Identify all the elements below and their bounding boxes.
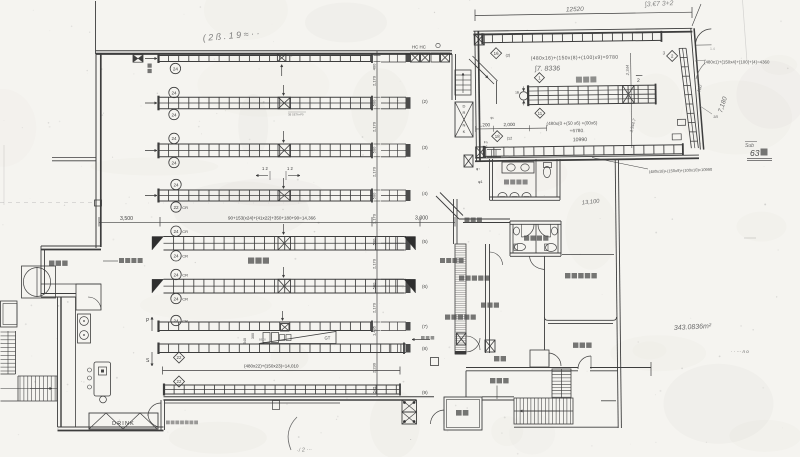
svg-text:R: R bbox=[463, 110, 466, 115]
svg-text:500: 500 bbox=[372, 99, 377, 106]
svg-text:(480x22)+(150x23)=14,010: (480x22)+(150x23)=14,010 bbox=[244, 364, 299, 369]
svg-text:500: 500 bbox=[372, 146, 377, 153]
svg-text:(7): (7) bbox=[422, 324, 428, 329]
svg-text:HC HC: HC HC bbox=[412, 45, 426, 50]
svg-text:ρ2: ρ2 bbox=[484, 145, 488, 149]
svg-text:BECK: BECK bbox=[259, 338, 266, 342]
svg-text:22: 22 bbox=[177, 379, 182, 384]
svg-text:22: 22 bbox=[173, 205, 179, 210]
svg-text:3B GETA+P9: 3B GETA+P9 bbox=[288, 113, 304, 117]
svg-text:CR: CR bbox=[182, 318, 188, 323]
svg-text:(5): (5) bbox=[422, 239, 428, 244]
svg-text:CR: CR bbox=[182, 229, 188, 234]
svg-text:(12: (12 bbox=[507, 137, 513, 141]
svg-text:∫7. 8336: ∫7. 8336 bbox=[534, 65, 560, 72]
svg-text:CR: CR bbox=[182, 254, 188, 259]
svg-text:24: 24 bbox=[173, 254, 179, 259]
svg-text:2,000: 2,000 bbox=[504, 122, 516, 127]
svg-text:2,170: 2,170 bbox=[372, 258, 377, 269]
svg-text:2,170: 2,170 bbox=[372, 166, 377, 177]
svg-text:241: 241 bbox=[625, 92, 630, 100]
svg-text:22: 22 bbox=[177, 355, 182, 360]
svg-text:(2): (2) bbox=[506, 54, 511, 58]
svg-text:CR: CR bbox=[182, 205, 188, 210]
svg-text:24: 24 bbox=[173, 272, 179, 277]
svg-text:GT: GT bbox=[325, 336, 331, 341]
svg-text:1,435: 1,435 bbox=[372, 325, 377, 336]
svg-text:(9): (9) bbox=[422, 390, 428, 395]
svg-text:CR: CR bbox=[182, 272, 188, 277]
svg-text:1 2: 1 2 bbox=[262, 166, 268, 171]
svg-text:N: N bbox=[463, 123, 466, 128]
svg-text:+6780: +6780 bbox=[570, 128, 584, 134]
svg-text:(3): (3) bbox=[422, 145, 428, 150]
svg-text:2,170: 2,170 bbox=[372, 121, 377, 132]
svg-text:500: 500 bbox=[372, 192, 377, 199]
svg-text:2,170: 2,170 bbox=[372, 75, 377, 86]
svg-text:3,000: 3,000 bbox=[415, 216, 428, 222]
svg-text:(4): (4) bbox=[422, 191, 428, 196]
svg-text:D: D bbox=[463, 104, 466, 109]
svg-text:1.4: 1.4 bbox=[710, 47, 715, 51]
svg-text:(480x(0 +(50 x6) +(00x6): (480x(0 +(50 x6) +(00x6) bbox=[546, 120, 597, 126]
svg-text:I: I bbox=[463, 116, 464, 121]
svg-text:400: 400 bbox=[372, 63, 377, 70]
svg-text:φ1: φ1 bbox=[478, 180, 483, 184]
svg-text:(480x1)+(150x4)+(100)+(4)=4360: (480x1)+(150x4)+(100)+(4)=4360 bbox=[704, 60, 770, 65]
svg-text:24: 24 bbox=[171, 112, 177, 117]
svg-text:500: 500 bbox=[372, 238, 377, 245]
svg-text:24: 24 bbox=[173, 296, 179, 301]
svg-text:K: K bbox=[463, 129, 466, 134]
svg-text:DRINK: DRINK bbox=[112, 421, 135, 427]
svg-text:2,230: 2,230 bbox=[372, 362, 377, 373]
svg-text:24: 24 bbox=[171, 160, 177, 165]
svg-text:φ↓: φ↓ bbox=[490, 116, 494, 120]
svg-text:1B: 1B bbox=[713, 114, 718, 119]
svg-text:24: 24 bbox=[173, 182, 179, 187]
svg-text:1B: 1B bbox=[515, 90, 519, 94]
svg-text:540: 540 bbox=[243, 338, 247, 344]
svg-text:24: 24 bbox=[171, 90, 177, 95]
svg-text:11: 11 bbox=[538, 111, 543, 116]
svg-text:18: 18 bbox=[495, 134, 501, 139]
svg-text:300: 300 bbox=[251, 333, 255, 339]
svg-text:(8): (8) bbox=[422, 346, 428, 351]
svg-text:24: 24 bbox=[173, 229, 179, 234]
svg-text:· · ··· n o: · · ··· n o bbox=[731, 349, 749, 354]
svg-text:24: 24 bbox=[173, 66, 179, 71]
svg-text:(6): (6) bbox=[422, 284, 428, 289]
svg-text:1 2: 1 2 bbox=[287, 166, 293, 171]
svg-text:90+153(x24)+(41x22)+350+180+90: 90+153(x24)+(41x22)+350+180+90=14,366 bbox=[228, 216, 316, 221]
svg-text:24: 24 bbox=[173, 318, 179, 323]
svg-text:10990: 10990 bbox=[573, 137, 588, 143]
svg-text:φ↑: φ↑ bbox=[476, 167, 480, 171]
svg-text:3,500: 3,500 bbox=[120, 216, 133, 222]
svg-text:16: 16 bbox=[494, 51, 500, 56]
svg-text:1,200: 1,200 bbox=[479, 122, 491, 127]
svg-text:24: 24 bbox=[171, 136, 177, 141]
svg-text:500: 500 bbox=[372, 282, 377, 289]
svg-text:63: 63 bbox=[750, 148, 760, 158]
svg-text:2,170: 2,170 bbox=[372, 302, 377, 313]
svg-text:(2): (2) bbox=[422, 99, 428, 104]
svg-text:CR: CR bbox=[182, 296, 188, 301]
svg-text:545: 545 bbox=[372, 386, 377, 393]
svg-text:Fn: Fn bbox=[484, 140, 488, 144]
svg-text:2,170: 2,170 bbox=[372, 213, 377, 224]
svg-text:(480x16)+(150x(8)+(100)x9)=978: (480x16)+(150x(8)+(100)x9)=9780 bbox=[531, 55, 619, 62]
svg-text:2: 2 bbox=[637, 78, 640, 84]
svg-text:12520: 12520 bbox=[566, 6, 584, 14]
svg-text:2,344: 2,344 bbox=[625, 64, 630, 76]
